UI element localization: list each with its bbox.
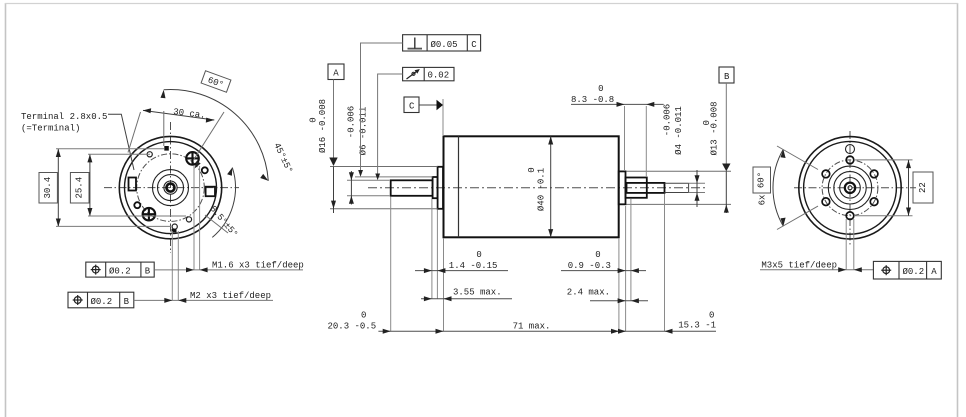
svg-text:B: B bbox=[145, 267, 151, 277]
60 box rotated label bbox=[753, 167, 771, 193]
bolt circle bbox=[137, 154, 205, 222]
runout leader bbox=[378, 74, 403, 174]
D6 dimension line bbox=[350, 171, 352, 205]
motor outer circle bbox=[119, 136, 221, 238]
hole bottom-right bbox=[186, 217, 191, 222]
M3 hole lower-right bbox=[870, 198, 878, 206]
30.4 boxed label bbox=[39, 173, 57, 204]
6x60 leg lower bbox=[777, 206, 818, 229]
svg-text:M2 x3 tief/deep: M2 x3 tief/deep bbox=[190, 291, 271, 301]
30 ca. extension lines bbox=[128, 112, 141, 153]
svg-text:25.4: 25.4 bbox=[75, 177, 85, 199]
M3 hole upper-left bbox=[822, 170, 830, 178]
row1 left dimension 1.4 bbox=[415, 270, 508, 272]
page border top bbox=[5, 3, 958, 5]
M1.6 leader line bbox=[154, 269, 303, 271]
collar circle R10.3 bbox=[840, 178, 861, 199]
vertical ext shaft end below bbox=[664, 194, 666, 332]
right terminal tab bbox=[206, 187, 215, 197]
small bold hole near T1 bbox=[202, 167, 208, 173]
30.4 extension lines bbox=[56, 148, 164, 150]
D40 dimension line bbox=[550, 136, 552, 237]
M1.6 hole projection lines bbox=[193, 166, 195, 270]
svg-text:M1.6 x3 tief/deep: M1.6 x3 tief/deep bbox=[212, 260, 304, 270]
svg-text:0: 0 bbox=[361, 310, 366, 320]
M3 hole bottom bbox=[846, 212, 854, 220]
M3 hole lower-left bbox=[822, 198, 830, 206]
row1 right dimension 0.9 bbox=[561, 270, 646, 272]
svg-text:0: 0 bbox=[309, 117, 319, 122]
rear shaft D4 bbox=[627, 183, 665, 193]
30.4 dimension line bbox=[57, 149, 59, 227]
svg-text:0.02: 0.02 bbox=[428, 71, 450, 81]
bearing ring circle R18 bbox=[153, 170, 189, 206]
60 deg arc bbox=[164, 90, 269, 181]
svg-text:B: B bbox=[124, 297, 130, 307]
motor housing inner circle bbox=[125, 142, 217, 234]
svg-text:Ø4 -0.011: Ø4 -0.011 bbox=[674, 106, 684, 155]
datum C box bbox=[404, 97, 419, 113]
boss circle R16.2 bbox=[834, 172, 866, 204]
vertical ext 8.3 left bbox=[624, 106, 626, 171]
svg-text:M3x5 tief/deep: M3x5 tief/deep bbox=[761, 260, 837, 270]
svg-text:71 max.: 71 max. bbox=[513, 322, 551, 332]
position frame M3 bbox=[873, 261, 941, 279]
rear shaft thin extension bbox=[665, 182, 689, 184]
svg-text:(=Terminal): (=Terminal) bbox=[21, 124, 80, 134]
ext line D16 top bbox=[330, 166, 438, 168]
left terminal tab bbox=[129, 178, 137, 191]
ext line D6 bottom bbox=[347, 195, 390, 197]
rear boss D13 bbox=[619, 171, 626, 204]
datum A box bbox=[328, 64, 344, 80]
rear collar D8 bbox=[626, 178, 647, 198]
page border right bbox=[957, 3, 959, 417]
front shaft step D8 bbox=[433, 177, 438, 198]
60 deg box label bbox=[201, 71, 231, 92]
front flange line bbox=[458, 136, 460, 237]
svg-text:0.9 -0.3: 0.9 -0.3 bbox=[568, 261, 611, 271]
shaft hub bold circle bbox=[167, 184, 175, 192]
vertical ext body-left-top corner bbox=[442, 99, 444, 136]
svg-text:0: 0 bbox=[598, 84, 603, 94]
ext line D16 bottom bbox=[330, 208, 438, 210]
svg-text:Ø0.2: Ø0.2 bbox=[91, 297, 113, 307]
terminal T2 (+) bbox=[143, 208, 156, 221]
svg-text:Ø13 -0.008: Ø13 -0.008 bbox=[710, 101, 720, 155]
D4 dimension line bbox=[696, 170, 698, 207]
row2 right dimension 2.4 bbox=[590, 300, 648, 302]
8.5 radial leg bbox=[205, 215, 228, 233]
position frame M1.6 bbox=[86, 262, 154, 277]
terminal T1 (+) bbox=[186, 152, 199, 165]
M3 hole projection lines bbox=[845, 219, 847, 270]
22 boxed label bbox=[913, 172, 933, 203]
svg-text:0: 0 bbox=[476, 250, 481, 260]
svg-text:Ø40 -0.1: Ø40 -0.1 bbox=[537, 168, 547, 211]
svg-text:0: 0 bbox=[709, 310, 714, 320]
M3x5 leader line bbox=[760, 269, 873, 271]
hole bottom bbox=[172, 224, 177, 229]
filled dot top bbox=[164, 146, 169, 151]
svg-text:3.55 max.: 3.55 max. bbox=[453, 287, 502, 297]
right housing circle bbox=[804, 141, 897, 234]
svg-text:6x: 6x bbox=[758, 195, 768, 206]
flange circle R21.7 bbox=[828, 166, 871, 209]
vertical ext boss16 left below bbox=[436, 210, 438, 299]
22 dimension line bbox=[908, 160, 910, 216]
svg-text:2.4 max.: 2.4 max. bbox=[567, 287, 610, 297]
D13 dimension line bbox=[725, 171, 727, 213]
right bolt circle dashed bbox=[822, 160, 878, 216]
M2 hole projection lines bbox=[171, 231, 173, 300]
svg-text:C: C bbox=[409, 102, 415, 112]
ext line D6 top bbox=[347, 179, 390, 181]
rear shaft bold circle bbox=[845, 183, 855, 193]
vertical ext body left below bbox=[443, 238, 445, 332]
8.3 dimension bbox=[571, 103, 664, 105]
radial leg through T1 bbox=[194, 112, 225, 160]
M3 hole upper-right bbox=[870, 170, 878, 178]
datum A leader bbox=[333, 80, 335, 158]
svg-text:0: 0 bbox=[527, 167, 537, 172]
row2 left dimension 3.55 bbox=[421, 298, 512, 300]
right view horizontal centerline bbox=[794, 187, 916, 189]
vertical ext body right below bbox=[618, 238, 620, 332]
svg-text:30.4: 30.4 bbox=[43, 177, 53, 199]
svg-text:B: B bbox=[724, 72, 730, 82]
svg-text:-0.006: -0.006 bbox=[347, 106, 357, 138]
vertical ext collar below bbox=[630, 199, 632, 301]
ext line D4 bottom bbox=[689, 192, 705, 194]
M3 hole top bbox=[846, 156, 854, 164]
vertical ext front shaft end below bbox=[390, 197, 392, 332]
bearing ring circle R13 bbox=[158, 175, 184, 201]
svg-text:Ø0.2: Ø0.2 bbox=[903, 267, 925, 277]
ext line D13 top bbox=[627, 170, 732, 172]
svg-text:Terminal 2.8x0.5: Terminal 2.8x0.5 bbox=[21, 112, 107, 122]
datum B leader bbox=[725, 83, 727, 164]
25.4 boxed label bbox=[70, 173, 89, 204]
ext line D13 bottom bbox=[627, 203, 732, 205]
svg-text:1.4 -0.15: 1.4 -0.15 bbox=[449, 261, 498, 271]
svg-text:60°: 60° bbox=[757, 172, 767, 188]
datum B box bbox=[719, 67, 734, 83]
svg-text:C: C bbox=[471, 40, 477, 50]
svg-text:22: 22 bbox=[918, 182, 928, 193]
right view vertical centerline bbox=[849, 131, 851, 245]
position frame M2 bbox=[68, 292, 134, 308]
middle centerline bbox=[368, 187, 706, 189]
svg-text:0: 0 bbox=[702, 120, 712, 125]
svg-text:A: A bbox=[333, 69, 339, 79]
filled tick bottom bbox=[172, 229, 177, 233]
ext line D4 top bbox=[689, 182, 705, 184]
page border left bbox=[5, 3, 7, 417]
vertical ext step left below bbox=[431, 199, 433, 299]
bearing circle R6.6 bbox=[164, 181, 177, 194]
front shaft D6 bbox=[391, 180, 433, 196]
small bold hole near T2 bbox=[134, 202, 140, 208]
svg-text:Ø16 -0.008: Ø16 -0.008 bbox=[318, 99, 328, 153]
terminal label leader bbox=[108, 114, 134, 170]
M2 leader line bbox=[134, 299, 273, 301]
datum C leader bbox=[419, 104, 437, 106]
svg-text:Ø0.2: Ø0.2 bbox=[109, 267, 131, 277]
pin hole top bbox=[846, 145, 855, 154]
ext line step top bbox=[355, 176, 433, 178]
svg-text:15.3 -1: 15.3 -1 bbox=[678, 321, 716, 331]
perpendicularity leader bbox=[361, 43, 403, 170]
vertical ext boss face below bbox=[625, 206, 627, 332]
center dot circle bbox=[848, 186, 852, 190]
25.4 extension lines bbox=[88, 153, 150, 155]
svg-text:20.3 -0.5: 20.3 -0.5 bbox=[328, 321, 377, 331]
left view horizontal centerline bbox=[104, 187, 239, 189]
22 extension lines bbox=[854, 159, 913, 161]
6x60 arc bbox=[773, 149, 783, 226]
runout frame bbox=[403, 67, 454, 80]
left view vertical centerline bbox=[170, 122, 172, 253]
svg-text:A: A bbox=[931, 267, 937, 277]
25.4 dimension line bbox=[89, 154, 91, 216]
6x60 leg upper bbox=[777, 146, 818, 170]
svg-text:0: 0 bbox=[595, 250, 600, 260]
row3 dimension line bbox=[378, 330, 716, 332]
motor body bbox=[444, 136, 619, 237]
right outer circle bbox=[799, 137, 901, 239]
svg-text:Ø0.05: Ø0.05 bbox=[431, 40, 458, 50]
hole top-left bbox=[147, 152, 152, 157]
8.5 deg arc bbox=[212, 168, 235, 238]
svg-text:8.3 -0.8: 8.3 -0.8 bbox=[571, 95, 614, 105]
front boss D16 bbox=[438, 167, 443, 209]
30 ca. dimension line bbox=[143, 110, 214, 120]
D16 dimension line bbox=[333, 167, 335, 214]
svg-text:-0.006: -0.006 bbox=[663, 104, 673, 136]
perpendicularity frame bbox=[403, 35, 481, 51]
vertical ext 8.3 right bbox=[645, 106, 647, 177]
